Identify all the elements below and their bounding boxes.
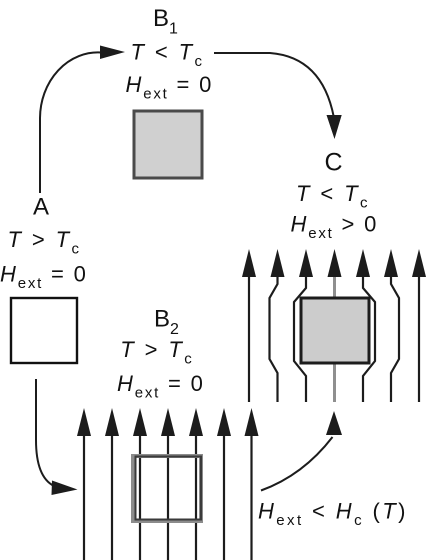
- field line C4 center gray: [333, 276, 336, 402]
- field line b4: [167, 436, 169, 560]
- field line group B2 bottom: [84, 436, 252, 560]
- field line b6: [223, 436, 225, 560]
- field line b5: [195, 436, 197, 560]
- field line C7: [418, 276, 420, 402]
- field line C6: [391, 276, 399, 402]
- square B2: [133, 456, 201, 521]
- arrowheads group C: [242, 249, 426, 277]
- arrowheads group B2: [77, 408, 259, 436]
- arrow B1 to C: [214, 53, 334, 117]
- square C: [301, 298, 369, 363]
- arrow B2 to C: [261, 437, 333, 491]
- field line C3: [294, 276, 306, 402]
- arrow A to B2: [36, 379, 54, 486]
- square B1: [134, 111, 202, 178]
- field line group C (behind square): [249, 276, 419, 402]
- field line b7: [250, 436, 252, 560]
- field line C5: [363, 276, 375, 402]
- field line C1: [248, 276, 250, 402]
- arrow A to B1: [40, 52, 101, 193]
- field line b1: [83, 436, 85, 560]
- field line C2: [270, 276, 278, 402]
- field line b3: [139, 436, 141, 560]
- field line b2: [111, 436, 113, 560]
- svg-text:C: C: [325, 149, 343, 177]
- square A: [11, 298, 77, 363]
- svg-text:A: A: [33, 194, 49, 221]
